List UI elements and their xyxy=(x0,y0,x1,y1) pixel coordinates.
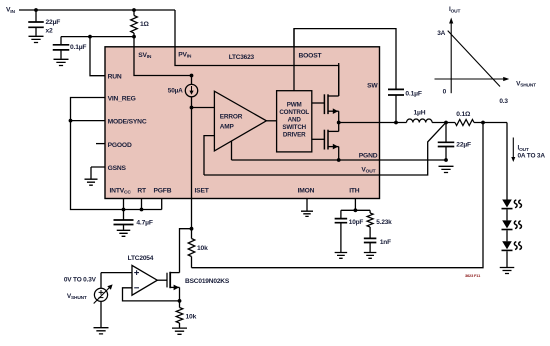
svg-text:PGOOD: PGOOD xyxy=(108,142,132,149)
svg-text:0A TO 3A: 0A TO 3A xyxy=(518,152,546,159)
svg-text:4.7µF: 4.7µF xyxy=(136,219,152,226)
svg-text:MODE/SYNC: MODE/SYNC xyxy=(108,119,147,126)
svg-text:LTC2054: LTC2054 xyxy=(128,255,154,262)
svg-text:1nF: 1nF xyxy=(380,239,391,246)
svg-text:LTC3623: LTC3623 xyxy=(229,54,255,61)
svg-text:PWM: PWM xyxy=(287,102,302,109)
svg-text:0: 0 xyxy=(443,88,447,95)
svg-text:GSNS: GSNS xyxy=(108,165,127,172)
svg-text:SWITCH: SWITCH xyxy=(282,124,306,131)
svg-text:VIN_REG: VIN_REG xyxy=(108,96,136,103)
svg-text:PGND: PGND xyxy=(359,153,378,160)
svg-text:CONTROL: CONTROL xyxy=(279,109,309,116)
svg-text:BOOST: BOOST xyxy=(299,53,323,60)
svg-text:ISET: ISET xyxy=(195,188,210,195)
svg-text:RT: RT xyxy=(137,187,147,194)
svg-text:22µF: 22µF xyxy=(456,141,471,148)
svg-text:10k: 10k xyxy=(197,245,208,252)
svg-text:5.23k: 5.23k xyxy=(376,219,392,226)
svg-text:50µA: 50µA xyxy=(168,88,183,95)
svg-text:AMP: AMP xyxy=(220,123,235,130)
svg-text:0.1Ω: 0.1Ω xyxy=(456,111,471,118)
svg-text:PGFB: PGFB xyxy=(154,187,172,194)
svg-text:x2: x2 xyxy=(46,28,54,35)
svg-text:0.1µF: 0.1µF xyxy=(70,44,86,51)
svg-text:ITH: ITH xyxy=(349,188,360,195)
svg-text:10pF: 10pF xyxy=(349,219,364,226)
svg-text:1µH: 1µH xyxy=(414,109,426,116)
svg-text:SW: SW xyxy=(367,82,378,89)
svg-text:DRIVER: DRIVER xyxy=(283,131,306,138)
svg-text:10k: 10k xyxy=(186,314,197,321)
svg-text:AND: AND xyxy=(288,116,302,123)
svg-text:22µF: 22µF xyxy=(46,19,61,26)
svg-text:RUN: RUN xyxy=(108,74,122,81)
svg-text:ERROR: ERROR xyxy=(220,113,243,120)
svg-text:1Ω: 1Ω xyxy=(140,21,150,28)
svg-text:IMON: IMON xyxy=(298,187,315,194)
svg-text:0V TO 0.3V: 0V TO 0.3V xyxy=(64,277,97,284)
svg-text:3A: 3A xyxy=(437,30,445,37)
svg-text:3623 F11: 3623 F11 xyxy=(465,273,481,278)
svg-text:BSC019N02KS: BSC019N02KS xyxy=(185,278,230,285)
svg-text:0.1µF: 0.1µF xyxy=(405,90,421,97)
svg-text:0.3: 0.3 xyxy=(499,98,508,105)
